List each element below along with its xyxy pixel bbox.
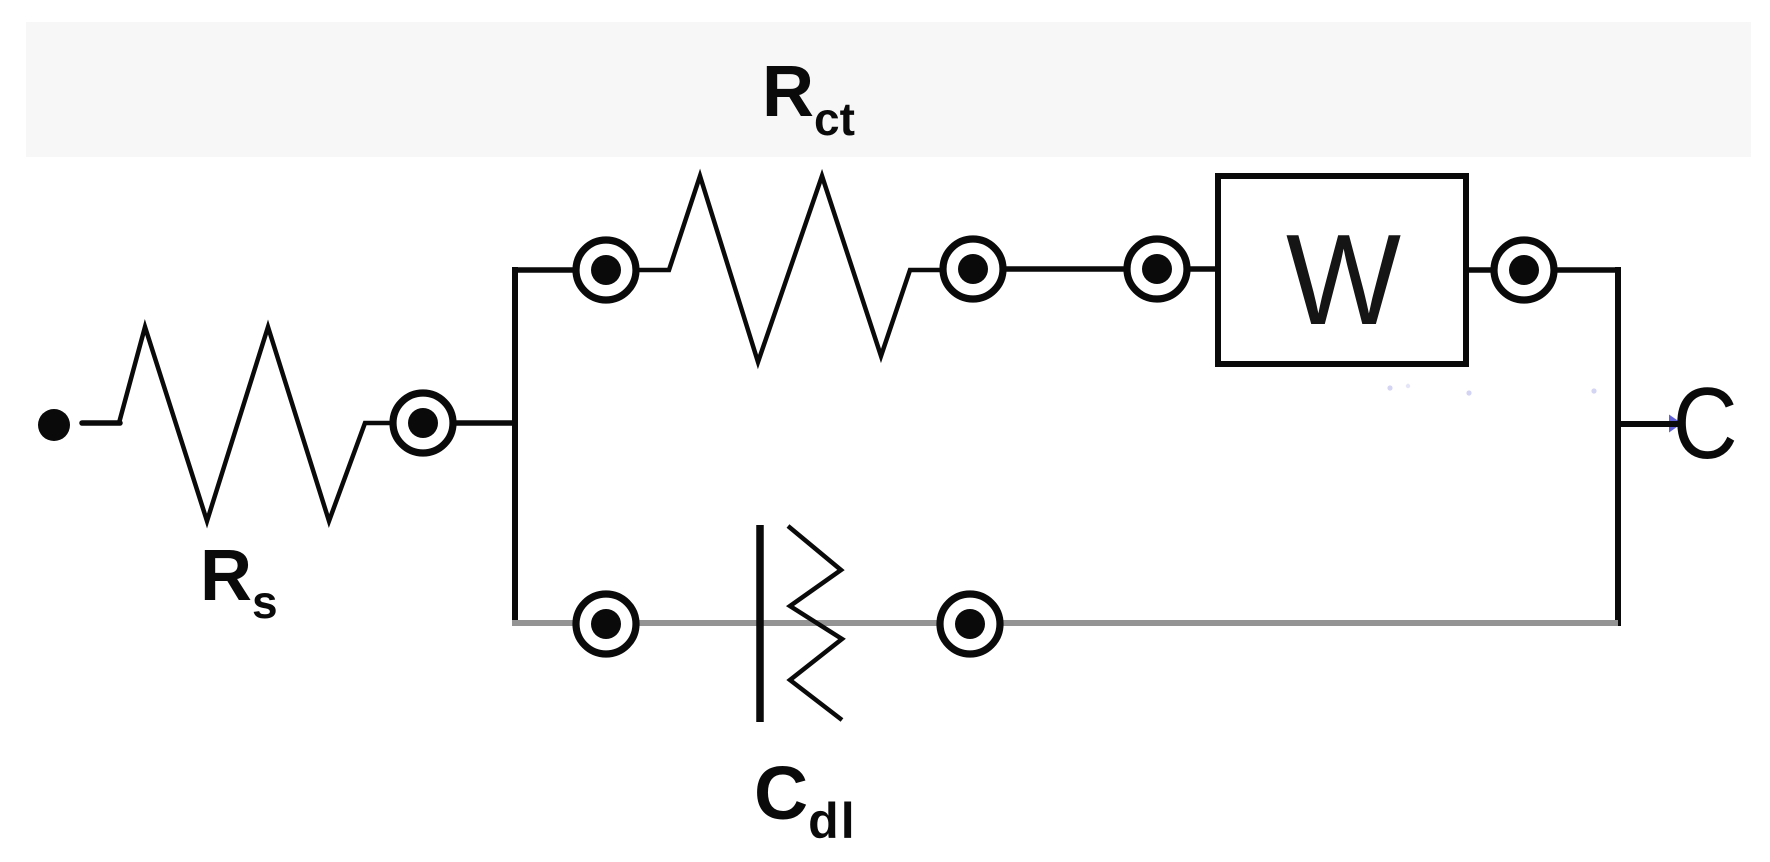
wire: node D to Warburg box: [1190, 266, 1220, 272]
wire: bottom branch (gray): [512, 620, 1618, 626]
node B (top branch left): [576, 240, 636, 300]
wire: left branch vertical: [512, 267, 518, 626]
terminal T1 (input dot): [38, 409, 70, 441]
node F (bottom branch left): [576, 594, 636, 654]
stray ink marks: [1387, 384, 1596, 396]
wire: input terminal to resistor Rs: [82, 420, 120, 426]
wire: node A to left junction: [456, 420, 518, 426]
blue marker at terminal: [1669, 415, 1682, 433]
resistor Rct: [639, 176, 940, 362]
node C (after Rct): [943, 239, 1003, 299]
resistor Rs: [119, 327, 391, 521]
svg-text:W: W: [1286, 208, 1401, 352]
node G (bottom branch right): [940, 594, 1000, 654]
wire: top-left corner to node B: [512, 267, 576, 273]
Warburg element W: [1218, 176, 1466, 364]
wire: node E to right junction: [1557, 267, 1621, 273]
node E (after W): [1494, 240, 1554, 300]
svg-text:C: C: [1673, 367, 1738, 480]
node A (after Rs): [393, 393, 453, 453]
wire: right branch vertical: [1615, 267, 1621, 626]
wire: stub to output terminal: [1618, 421, 1680, 427]
capacitor Cdl: [760, 525, 842, 722]
wire: node C to node D: [1006, 266, 1124, 272]
wire: Warburg box to node E: [1466, 267, 1492, 273]
node D (before W): [1127, 239, 1187, 299]
